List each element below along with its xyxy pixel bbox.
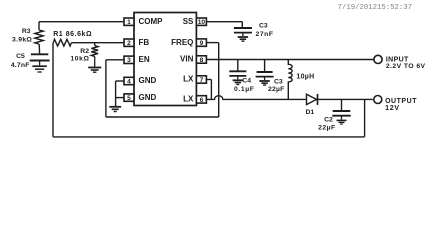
svg-text:10kΩ: 10kΩ bbox=[70, 56, 89, 63]
svg-text:VIN: VIN bbox=[180, 55, 194, 64]
svg-text:6: 6 bbox=[200, 97, 204, 104]
svg-text:COMP: COMP bbox=[139, 17, 164, 26]
svg-text:C2: C2 bbox=[324, 117, 333, 124]
svg-text:10µH: 10µH bbox=[296, 73, 314, 80]
svg-text:27nF: 27nF bbox=[256, 31, 274, 38]
svg-text:0.1µF: 0.1µF bbox=[234, 86, 255, 93]
svg-text:C3: C3 bbox=[274, 78, 283, 85]
svg-text:10: 10 bbox=[198, 19, 206, 26]
svg-text:FB: FB bbox=[139, 38, 150, 47]
svg-text:LX: LX bbox=[183, 95, 194, 104]
svg-text:GND: GND bbox=[139, 93, 157, 102]
svg-text:R1 86.6kΩ: R1 86.6kΩ bbox=[53, 31, 92, 38]
svg-text:5: 5 bbox=[127, 95, 131, 102]
svg-text:4: 4 bbox=[127, 78, 131, 85]
svg-text:R3: R3 bbox=[22, 28, 31, 35]
svg-text:LX: LX bbox=[183, 75, 194, 84]
svg-text:4.7nF: 4.7nF bbox=[11, 62, 30, 69]
svg-text:GND: GND bbox=[139, 76, 157, 85]
svg-text:EN: EN bbox=[139, 55, 150, 64]
svg-text:22µF: 22µF bbox=[268, 86, 284, 93]
svg-text:C3: C3 bbox=[259, 23, 268, 30]
svg-text:8: 8 bbox=[200, 57, 204, 64]
svg-text:1: 1 bbox=[127, 19, 131, 26]
svg-text:3: 3 bbox=[127, 57, 131, 64]
svg-text:C5: C5 bbox=[16, 53, 25, 60]
svg-text:12V: 12V bbox=[385, 105, 400, 112]
svg-text:2: 2 bbox=[127, 40, 131, 47]
svg-text:7/19/201215:52:37: 7/19/201215:52:37 bbox=[338, 4, 412, 12]
svg-text:3.9kΩ: 3.9kΩ bbox=[12, 37, 32, 44]
svg-text:C4: C4 bbox=[242, 77, 251, 84]
svg-text:FREQ: FREQ bbox=[171, 38, 193, 47]
svg-text:R2: R2 bbox=[80, 48, 89, 55]
svg-text:2.2V TO 6V: 2.2V TO 6V bbox=[386, 63, 426, 70]
svg-text:7: 7 bbox=[200, 77, 204, 84]
svg-text:22µF: 22µF bbox=[318, 124, 335, 131]
svg-text:D1: D1 bbox=[306, 109, 315, 116]
svg-text:9: 9 bbox=[200, 40, 204, 47]
svg-text:SS: SS bbox=[183, 17, 194, 26]
